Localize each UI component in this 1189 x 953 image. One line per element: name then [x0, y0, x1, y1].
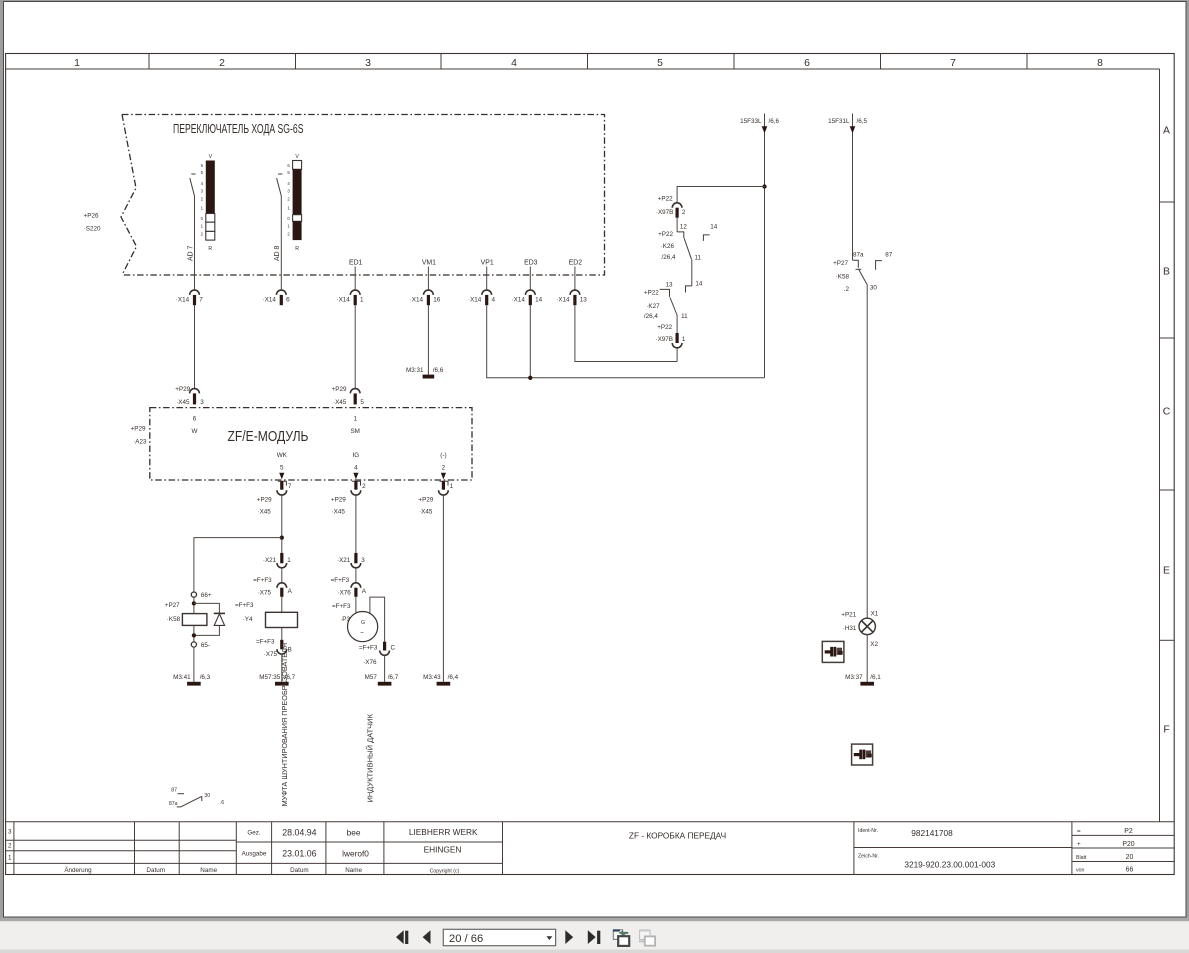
wire X21-1 to X75-A — [281, 568, 283, 583]
connector X14 pin 16 — [410, 290, 441, 305]
svg-text:A: A — [1163, 126, 1170, 137]
wire 15F33L — [764, 114, 766, 378]
switch AD7 position bar — [206, 161, 215, 214]
svg-text:Name: Name — [200, 867, 217, 874]
svg-text:·H31: ·H31 — [843, 625, 857, 632]
wire to relay K58 coil — [194, 538, 282, 592]
next-view icon (disabled) — [639, 929, 655, 945]
connector X45 pin 2 (module bottom) — [331, 481, 366, 515]
wire 66+ to coil — [193, 597, 195, 613]
svg-text:30: 30 — [204, 793, 210, 799]
svg-text:·X45: ·X45 — [419, 509, 433, 516]
connector X75 pin A — [277, 583, 287, 588]
svg-text:4: 4 — [354, 465, 358, 472]
title col line date|name2 — [325, 822, 327, 875]
connector X14 pin 4 — [468, 290, 496, 305]
svg-text:/6,6: /6,6 — [769, 118, 780, 125]
ruler tick 7|8 — [1026, 54, 1028, 70]
svg-text:7: 7 — [288, 483, 292, 490]
junction WK relay branch — [280, 535, 284, 539]
svg-text:M3:43: M3:43 — [423, 674, 441, 681]
svg-text:+P27: +P27 — [165, 602, 180, 609]
svg-text:5: 5 — [657, 58, 663, 69]
svg-text:~: ~ — [360, 630, 364, 637]
title col line gez|date — [271, 822, 273, 875]
svg-text:3: 3 — [8, 829, 12, 836]
connector X14 pin 6 — [263, 290, 291, 305]
wire ED3 to bus — [529, 305, 531, 378]
diode cathode bar — [214, 612, 225, 614]
svg-text:·S220: ·S220 — [84, 226, 101, 233]
svg-text:EHINGEN: EHINGEN — [424, 845, 462, 855]
contact K58 blade — [859, 269, 867, 284]
svg-text:Datum: Datum — [290, 867, 309, 874]
svg-text:/6,3: /6,3 — [200, 674, 211, 681]
svg-text:/6,4: /6,4 — [448, 674, 459, 681]
svg-text:14: 14 — [695, 280, 703, 287]
connector X75 pin B — [280, 640, 283, 650]
svg-text:B: B — [1163, 267, 1170, 278]
ruler bottom line — [6, 68, 1160, 70]
svg-text:5: 5 — [280, 465, 284, 472]
svg-text:16: 16 — [433, 297, 441, 304]
ground M3:37 — [860, 682, 874, 686]
svg-text:·X14: ·X14 — [468, 297, 482, 304]
connector X21 pin 1 — [280, 553, 283, 563]
svg-text:·X14: ·X14 — [336, 297, 350, 304]
svg-text:lwerof0: lwerof0 — [342, 849, 369, 859]
ground M3:31 — [423, 375, 435, 379]
svg-text:5: 5 — [360, 399, 364, 406]
svg-text:6: 6 — [804, 58, 810, 69]
svg-text:=F+F3: =F+F3 — [253, 577, 272, 584]
svg-text:·X45: ·X45 — [333, 399, 347, 406]
wire VP1 stub — [486, 267, 488, 291]
wire ED2 to X97B chain — [575, 305, 677, 361]
ruler tick 1|2 — [148, 54, 150, 70]
svg-text:ПЕРЕКЛЮЧАТЕЛЬ ХОДА SG-6S: ПЕРЕКЛЮЧАТЕЛЬ ХОДА SG-6S — [173, 121, 304, 136]
svg-text:·X45: ·X45 — [332, 509, 346, 516]
contact K27 blade — [670, 298, 677, 315]
svg-text:4: 4 — [492, 297, 496, 304]
switch AD8 position bar — [293, 161, 302, 170]
svg-text:/26,4: /26,4 — [661, 254, 676, 261]
title col line ident|pagetable — [1071, 822, 1073, 875]
SG-6S box left break border — [121, 115, 137, 276]
svg-text:·P3: ·P3 — [340, 616, 350, 623]
svg-text:Ausgabe: Ausgabe — [242, 851, 267, 858]
svg-text:=F+F3: =F+F3 — [332, 603, 351, 610]
prev-view icon — [613, 929, 629, 946]
svg-text:WK: WK — [277, 452, 288, 459]
svg-text:·X45: ·X45 — [257, 509, 271, 516]
wire Y4 to X75-B — [281, 628, 283, 640]
wire 65- to ground — [193, 647, 195, 682]
svg-text:·X14: ·X14 — [410, 297, 424, 304]
svg-text:23.01.06: 23.01.06 — [282, 849, 316, 859]
svg-text:·X14: ·X14 — [176, 297, 190, 304]
svg-text:V: V — [209, 154, 213, 160]
svg-text:6: 6 — [286, 297, 290, 304]
svg-text:30: 30 — [870, 284, 878, 291]
title row line gez|ausgabe — [236, 841, 502, 843]
row letter column left border — [1159, 69, 1161, 822]
svg-text:Änderung: Änderung — [64, 866, 92, 874]
contact K58 cross tick — [856, 268, 862, 270]
svg-text:20: 20 — [1126, 854, 1134, 861]
svg-text:14: 14 — [710, 224, 718, 231]
title col line liebherr|zf — [502, 822, 504, 875]
svg-text:87a: 87a — [169, 801, 178, 807]
arrow 15F33L — [762, 126, 768, 133]
contact mirror blade — [181, 796, 202, 807]
lamp H31 — [859, 618, 875, 634]
ruler tick 3|4 — [440, 54, 442, 70]
svg-text:ZF - КОРОБКА ПЕРЕДАЧ: ZF - КОРОБКА ПЕРЕДАЧ — [629, 831, 726, 841]
svg-text:3: 3 — [365, 58, 371, 69]
svg-text:·A23: ·A23 — [133, 439, 147, 446]
svg-text:Zeich-Nr.: Zeich-Nr. — [858, 853, 879, 859]
wire AD8 — [280, 196, 282, 290]
title col line name2|liebherr — [383, 822, 385, 875]
svg-text:6: 6 — [193, 416, 197, 423]
relay K58 coil — [182, 614, 207, 626]
svg-text:E: E — [1163, 566, 1170, 577]
inductive sensor P3 — [348, 612, 378, 642]
title col line name|gez — [235, 822, 237, 875]
svg-text:+P26: +P26 — [84, 213, 99, 220]
svg-text:+P22: +P22 — [658, 196, 673, 203]
page table row line 2 — [1072, 847, 1174, 849]
svg-text:1: 1 — [360, 297, 364, 304]
page combo box — [443, 929, 555, 945]
svg-text:+P29: +P29 — [332, 386, 347, 393]
svg-text:3: 3 — [361, 557, 365, 564]
ruler tick 5|6 — [733, 54, 735, 70]
svg-text:·X14: ·X14 — [556, 297, 570, 304]
svg-text:M57: M57 — [365, 674, 378, 681]
svg-text:65-: 65- — [201, 642, 210, 649]
svg-text:X1: X1 — [871, 611, 879, 618]
wire branch to X97B-2 — [677, 187, 764, 204]
arrow 15F31L — [850, 126, 856, 133]
svg-text:·Y4: ·Y4 — [243, 616, 253, 623]
ruler tick 4|5 — [587, 54, 589, 70]
wire lamp to ground — [866, 635, 868, 682]
svg-text:VM1: VM1 — [422, 260, 436, 267]
svg-text:·X75: ·X75 — [264, 651, 278, 658]
toolbar background — [0, 921, 1189, 949]
svg-text:ED2: ED2 — [569, 260, 583, 267]
wire X21-3 to X76-A — [355, 568, 357, 583]
wire 15F31L — [852, 114, 854, 261]
nav last-page button — [588, 930, 601, 944]
svg-text:15F33L: 15F33L — [740, 118, 762, 125]
svg-text:2: 2 — [8, 843, 12, 850]
svg-text:·X75: ·X75 — [258, 590, 272, 597]
connector X76 pin A — [351, 583, 361, 588]
wire ED3 stub — [529, 267, 531, 291]
svg-text:·K26: ·K26 — [661, 243, 675, 250]
wire ED1 stub — [354, 267, 356, 291]
connector X14 pin 14 — [512, 290, 543, 305]
svg-text:.6: .6 — [220, 800, 224, 806]
svg-text:=F+F3: =F+F3 — [256, 639, 275, 646]
title col line rev-digits — [13, 822, 15, 875]
svg-text:·K27: ·K27 — [646, 303, 660, 310]
junction relay top — [192, 601, 196, 605]
title row line ident|zeich — [854, 847, 1072, 849]
wire K58-30 to lamp — [866, 284, 868, 618]
contact K26 terminal 14 bracket — [703, 235, 709, 241]
svg-text:LIEBHERR WERK: LIEBHERR WERK — [409, 827, 478, 837]
svg-text:+P27: +P27 — [833, 260, 848, 267]
svg-text:87: 87 — [171, 787, 177, 793]
wire coil to 65- — [193, 625, 195, 642]
svg-text:+P29: +P29 — [131, 426, 146, 433]
svg-text:(-): (-) — [440, 452, 446, 459]
title block top line — [6, 821, 1175, 823]
svg-text:=F+F3: =F+F3 — [331, 577, 350, 584]
svg-text:M57:35: M57:35 — [259, 674, 281, 681]
svg-text:+P21: +P21 — [841, 612, 856, 619]
svg-text:VP1: VP1 — [481, 260, 494, 267]
nav next button — [565, 930, 573, 944]
svg-text:8: 8 — [1097, 58, 1103, 69]
ruler tick 2|3 — [295, 54, 297, 70]
wire VM1 to ground — [427, 305, 429, 375]
connector X14 pin 1 — [336, 290, 364, 305]
svg-text:Copyright (c): Copyright (c) — [430, 868, 460, 874]
svg-text:+P29: +P29 — [257, 497, 272, 504]
svg-text:·X76: ·X76 — [363, 659, 377, 666]
switch AD7 blade — [190, 178, 195, 196]
ruler tick 6|7 — [880, 54, 882, 70]
svg-text:X2: X2 — [870, 641, 878, 648]
wire AD7 — [194, 196, 196, 290]
connector X45 pin 5 (SM input) — [350, 389, 360, 394]
svg-text:2: 2 — [442, 465, 446, 472]
svg-text:1: 1 — [287, 557, 291, 564]
connector X45 pin 3 (W input) — [190, 389, 200, 394]
svg-text:·K58: ·K58 — [167, 616, 181, 623]
svg-text:P20: P20 — [1122, 841, 1134, 848]
svg-text:=: = — [1077, 828, 1081, 835]
diode triangle — [214, 614, 224, 626]
svg-text:13: 13 — [666, 281, 674, 288]
wire VM1 stub — [427, 267, 429, 291]
connector X21 pin 3 — [354, 553, 357, 563]
junction relay bottom — [192, 633, 196, 637]
svg-text:/6,6: /6,6 — [433, 367, 444, 374]
svg-text:+P29: +P29 — [331, 497, 346, 504]
svg-text:·K58: ·K58 — [836, 274, 850, 281]
wire K27 to X97B-1 — [676, 315, 678, 334]
svg-text:11: 11 — [695, 255, 702, 262]
contact K26 terminal 12 — [677, 232, 684, 238]
wire WK branch — [281, 495, 283, 553]
wire AD7 to X45 — [194, 305, 196, 389]
svg-text:2: 2 — [219, 58, 225, 69]
coil Y4 — [266, 612, 298, 627]
wire K26-11 to K27-14 — [691, 259, 693, 286]
svg-text:Name: Name — [345, 867, 362, 874]
wire X97B-2 to K26 — [676, 218, 678, 232]
svg-text:+: + — [1077, 841, 1081, 848]
svg-text:R: R — [295, 246, 299, 252]
svg-text:2: 2 — [682, 209, 686, 216]
connector X97B pin 2 — [672, 203, 682, 208]
svg-text:ED1: ED1 — [349, 260, 363, 267]
svg-text:W: W — [192, 428, 198, 435]
svg-text:+P22: +P22 — [658, 231, 673, 238]
nav prev button — [423, 930, 431, 944]
svg-text:P2: P2 — [1124, 828, 1133, 835]
svg-text:11: 11 — [681, 313, 688, 320]
junction 15F33L branch — [762, 184, 766, 188]
svg-text:/6,1: /6,1 — [870, 674, 881, 681]
title header row line — [6, 862, 503, 864]
row divider B|C — [1160, 337, 1175, 339]
svg-text:·X97B: ·X97B — [655, 336, 673, 343]
row divider C|E — [1160, 489, 1175, 491]
contact K58 87a step — [853, 260, 859, 268]
contact mirror 87 tick — [178, 793, 184, 795]
svg-text:AD 7: AD 7 — [187, 246, 194, 261]
svg-text:bee: bee — [347, 828, 361, 838]
module internal arrowheads — [279, 473, 284, 480]
svg-text:M3:41: M3:41 — [173, 674, 191, 681]
switch AD7 top tick — [191, 173, 195, 175]
svg-text:7: 7 — [950, 58, 956, 69]
svg-text:·X97B: ·X97B — [656, 209, 674, 216]
svg-text:/6,5: /6,5 — [857, 118, 868, 125]
combo dropdown arrow — [546, 936, 552, 940]
svg-text:AD 8: AD 8 — [274, 246, 281, 261]
svg-text:=F+F3: =F+F3 — [359, 645, 378, 652]
svg-text:1: 1 — [74, 58, 80, 69]
switch AD8 blade — [277, 178, 282, 196]
junction ED3 bus — [528, 376, 532, 380]
wire X97B-1 down to ED2 bus — [676, 348, 678, 362]
svg-text:12: 12 — [680, 224, 688, 231]
diode branch wire bottom — [194, 625, 220, 635]
title row line rev2|rev1 — [6, 850, 237, 852]
page table row line 3 — [1072, 861, 1174, 863]
svg-text:IG: IG — [353, 452, 360, 459]
svg-text:/26,4: /26,4 — [644, 313, 659, 320]
wire minus branch to ground — [442, 495, 444, 682]
svg-text:3219-920.23.00.001-003: 3219-920.23.00.001-003 — [904, 859, 995, 869]
svg-text:=F+F3: =F+F3 — [235, 602, 254, 609]
svg-text:von: von — [1076, 868, 1084, 874]
svg-text:28.04.94: 28.04.94 — [282, 828, 316, 838]
svg-text:2: 2 — [362, 483, 366, 490]
ground M57 — [378, 682, 392, 686]
svg-text:F: F — [1163, 725, 1169, 736]
svg-text:14: 14 — [535, 297, 543, 304]
svg-text:SM: SM — [350, 428, 359, 435]
svg-text:1: 1 — [450, 483, 454, 490]
svg-text:ZF/E-МОДУЛЬ: ZF/E-МОДУЛЬ — [228, 429, 309, 445]
row divider E|F — [1160, 639, 1175, 641]
SG-6S switch box dash-dot border — [122, 115, 605, 276]
svg-text:·X14: ·X14 — [512, 297, 526, 304]
svg-text:+P22: +P22 — [657, 324, 672, 331]
wire VP1 to bus — [487, 305, 765, 378]
svg-text:87: 87 — [885, 252, 893, 259]
svg-text:+P29: +P29 — [418, 497, 433, 504]
svg-text:M3:31: M3:31 — [406, 367, 424, 374]
svg-text:ИНДУКТИВНЫЙ ДАТЧИК: ИНДУКТИВНЫЙ ДАТЧИК — [365, 713, 374, 802]
svg-text:4: 4 — [511, 58, 517, 69]
relay K58 terminal 66+ — [191, 592, 196, 597]
svg-text:66+: 66+ — [201, 592, 212, 599]
wire X75-A to Y4 — [281, 597, 283, 613]
connector X14 pin 13 — [556, 290, 587, 305]
wire ED2 stub — [574, 267, 576, 291]
svg-text:87a: 87a — [853, 251, 864, 258]
svg-text:C: C — [391, 645, 396, 652]
title col line aenderung|datum — [134, 822, 136, 875]
svg-text:20 / 66: 20 / 66 — [449, 933, 483, 945]
contact K58 87 bracket — [876, 261, 882, 270]
svg-text:1: 1 — [8, 855, 12, 862]
svg-text:V: V — [295, 154, 299, 160]
title col line zf|ident — [853, 822, 855, 875]
wire X76-C to ground — [384, 655, 386, 681]
svg-text:Gez.: Gez. — [247, 830, 261, 837]
svg-text:.2: .2 — [844, 286, 850, 293]
svg-text:·X21: ·X21 — [263, 557, 277, 564]
switch AD8 top tick — [278, 173, 282, 175]
wire X76-A to sensor — [355, 597, 357, 614]
svg-text:ED3: ED3 — [524, 260, 538, 267]
nav first-page button — [396, 930, 408, 944]
svg-text:+P29: +P29 — [175, 386, 190, 393]
svg-text:Datum: Datum — [146, 867, 165, 874]
svg-text:1: 1 — [682, 336, 686, 343]
connector X45 pin 7 (module bottom) — [257, 481, 292, 515]
title row line rev3|rev2 — [6, 839, 237, 841]
contact K27 terminal 14 bracket — [686, 286, 692, 293]
toolbar bottom strip — [0, 950, 1189, 953]
sensor loop wire — [370, 597, 385, 642]
diode branch wire top — [194, 603, 220, 613]
svg-text:G: G — [361, 620, 365, 626]
svg-text:982141708: 982141708 — [911, 828, 953, 838]
title col line datum|name — [178, 822, 180, 875]
svg-text:13: 13 — [580, 297, 588, 304]
connector X76 pin C — [383, 642, 386, 651]
ZF/E module box dash-dot border — [150, 408, 472, 480]
svg-text:M3:37: M3:37 — [845, 674, 863, 681]
wire ED1 to X45 — [354, 305, 356, 389]
coding plug icon upper — [822, 641, 844, 662]
svg-text:·X76: ·X76 — [337, 590, 351, 597]
page table row line 1 — [1072, 834, 1174, 836]
svg-text:+P22: +P22 — [644, 289, 659, 296]
svg-text:3: 3 — [200, 399, 204, 406]
svg-text:7: 7 — [199, 297, 203, 304]
wire IG branch — [355, 495, 357, 553]
connector X97B pin 1 — [676, 333, 679, 343]
svg-text:C: C — [1163, 407, 1171, 418]
svg-text:R: R — [208, 246, 212, 252]
svg-text:/6,7: /6,7 — [388, 674, 399, 681]
svg-text:МУФТА ШУНТИРОВАНИЯ ПРЕОБРАЗОВА: МУФТА ШУНТИРОВАНИЯ ПРЕОБРАЗОВАТЕЛЯ — [280, 643, 289, 807]
svg-text:·X45: ·X45 — [176, 399, 190, 406]
